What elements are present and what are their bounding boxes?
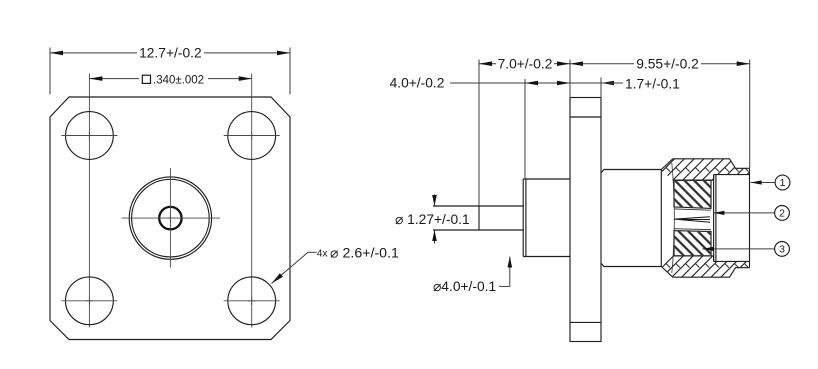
svg-text:12.7+/-0.2: 12.7+/-0.2 — [139, 46, 202, 61]
dielectric wedge top — [674, 180, 711, 208]
coupling nut outline — [661, 159, 749, 277]
mounting hole bottom-right — [228, 277, 276, 325]
dimension 7.0+/-0.2 — [479, 63, 496, 65]
connector body circle outer — [129, 177, 211, 259]
mounting hole top-right — [228, 112, 276, 160]
svg-text:⌀ 1.27+/-0.1: ⌀ 1.27+/-0.1 — [395, 212, 470, 227]
dimension 1.7+/-0.1 — [601, 81, 614, 86]
socket contact slot — [674, 217, 710, 222]
svg-text:⌀4.0+/-0.1: ⌀4.0+/-0.1 — [433, 279, 496, 294]
dimension 4.0+/-0.2 — [450, 82, 601, 84]
svg-text:7.0+/-0.2: 7.0+/-0.2 — [498, 56, 553, 71]
center crosshair — [169, 168, 171, 268]
center pin — [433, 205, 524, 207]
svg-text:1.7+/-0.1: 1.7+/-0.1 — [625, 76, 680, 91]
balloon 3 with leader — [703, 248, 775, 250]
svg-text:1: 1 — [780, 177, 786, 189]
mounting hole bottom-left — [66, 277, 114, 325]
note 4x dia 2.6+/-0.1 with leader — [308, 251, 317, 253]
svg-text:3: 3 — [779, 244, 785, 256]
flange front view outline — [50, 97, 290, 340]
svg-text:⌀ 2.6+/-0.1: ⌀ 2.6+/-0.1 — [330, 245, 399, 261]
flange chamfer lines — [570, 116, 601, 118]
nut bore lines — [673, 175, 714, 262]
svg-text:2: 2 — [779, 208, 785, 220]
flange side view — [570, 98, 601, 342]
dimension 12.7+/-0.2 — [49, 48, 51, 95]
dimension dia 4.0+/-0.1 with leader — [509, 257, 511, 287]
svg-text:4x: 4x — [317, 248, 329, 260]
extension lines top dims — [478, 60, 480, 207]
mounting hole top-left — [66, 112, 114, 160]
connector body circle inner — [132, 179, 210, 257]
dimension square .340+-.002 — [89, 78, 139, 80]
nut wall hatch top — [618, 154, 792, 186]
dimension 9.55+/-0.2 — [570, 63, 634, 65]
dielectric wedge bottom — [674, 231, 711, 256]
connector body barrel — [601, 170, 661, 267]
hole centerline vertical left — [88, 74, 90, 328]
balloon 1 with leader — [751, 182, 776, 184]
dielectric cylinder — [523, 179, 570, 257]
interface bushing rectangle — [714, 175, 750, 262]
svg-text:4.0+/-0.2: 4.0+/-0.2 — [390, 76, 445, 91]
nut front arc — [672, 163, 675, 273]
nut wall hatch bottom — [618, 250, 792, 282]
svg-text:9.55+/-0.2: 9.55+/-0.2 — [636, 56, 699, 71]
dimension dia 1.27+/-0.1 — [434, 195, 436, 207]
center contact circle — [159, 207, 181, 229]
svg-text:.340±.002: .340±.002 — [153, 74, 204, 86]
hole centerline vertical right — [251, 74, 253, 328]
balloon 2 with leader — [713, 212, 774, 214]
